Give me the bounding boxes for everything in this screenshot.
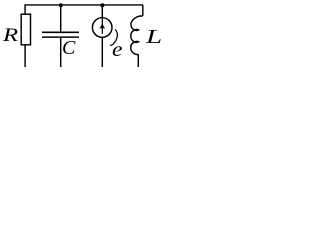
capacitor C plates [42, 31, 79, 33]
label e upper flourish (script-E spine) [110, 29, 117, 45]
label C [62, 38, 75, 58]
resistor R [21, 14, 30, 45]
wire top rail [24, 4, 142, 6]
inductor L coil [131, 16, 143, 55]
wire source bottom lead [101, 37, 103, 67]
label L [146, 27, 162, 47]
wire resistor top lead [24, 5, 26, 14]
wire capacitor bottom lead [60, 38, 62, 67]
wire resistor bottom lead [24, 45, 26, 67]
node junction dot at capacitor branch [59, 3, 63, 7]
wire inductor top lead [142, 5, 144, 16]
label e [112, 39, 122, 60]
wire source top lead [101, 5, 103, 18]
current source arrow (points up) [101, 18, 103, 34]
current source e (circle) [92, 18, 112, 38]
wire inductor bottom lead [137, 54, 139, 67]
label R [3, 26, 18, 45]
wire capacitor top lead [60, 5, 62, 32]
node junction dot at source branch [100, 3, 104, 7]
